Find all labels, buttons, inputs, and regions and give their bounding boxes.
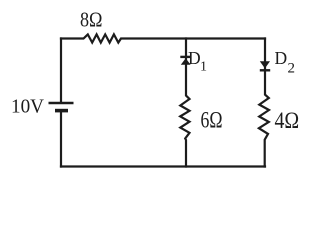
svg-text:6Ω: 6Ω: [201, 107, 223, 132]
svg-text:2: 2: [288, 60, 296, 76]
svg-text:D: D: [275, 48, 288, 68]
svg-text:D: D: [188, 48, 201, 68]
svg-text:4Ω: 4Ω: [275, 108, 300, 133]
svg-text:10V: 10V: [11, 96, 44, 118]
svg-text:8Ω: 8Ω: [80, 8, 103, 32]
svg-text:1: 1: [200, 60, 207, 75]
